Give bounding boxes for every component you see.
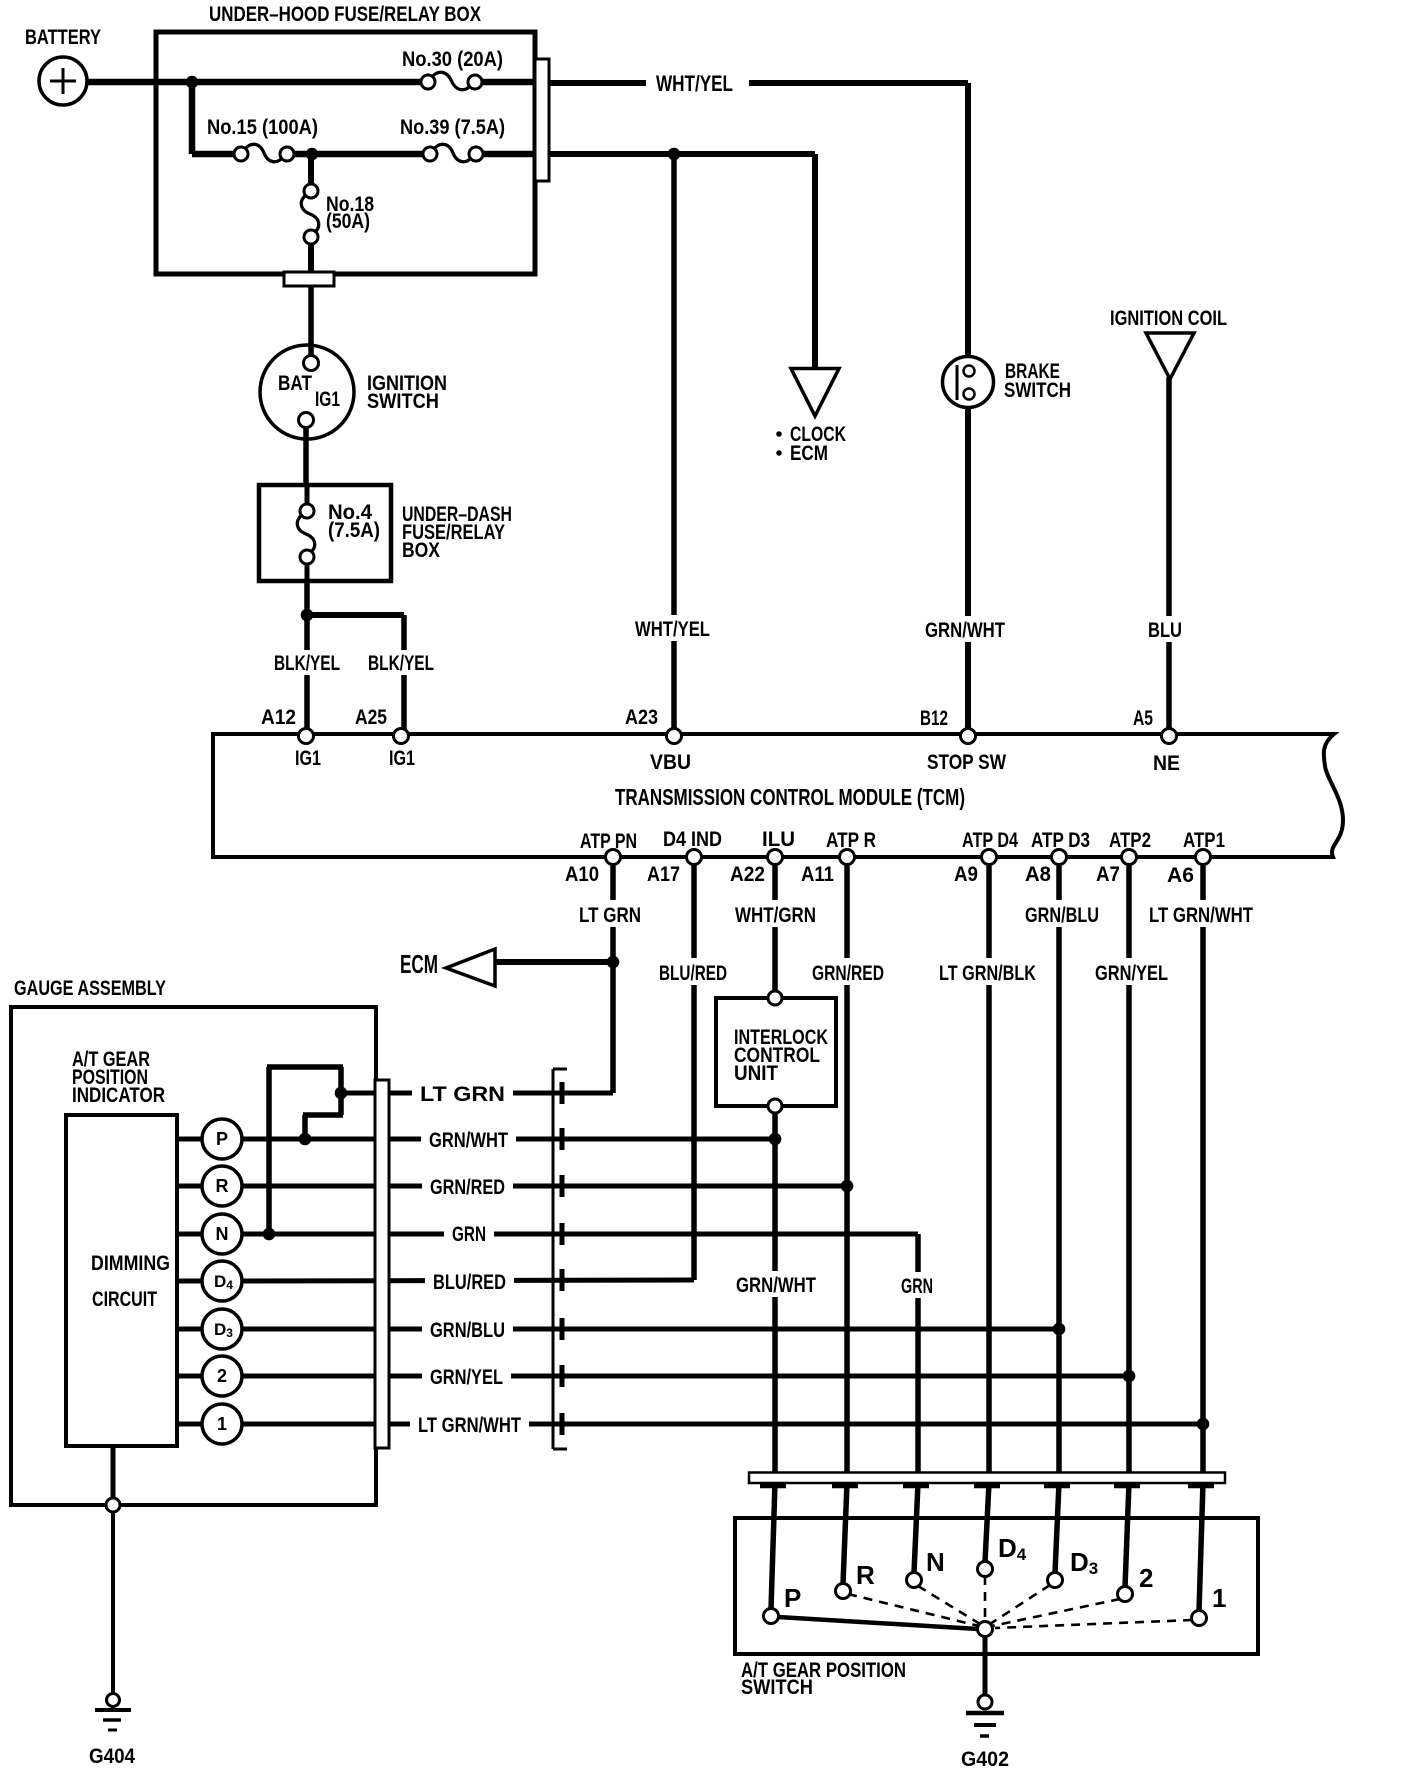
svg-text:GRN/BLU: GRN/BLU [430,1319,505,1342]
svg-text:A25: A25 [355,706,387,729]
svg-text:G402: G402 [961,1748,1009,1771]
svg-text:N: N [216,1224,229,1244]
svg-text:GRN: GRN [452,1223,486,1246]
svg-text:A22: A22 [730,863,765,886]
svg-text:GRN/RED: GRN/RED [430,1176,505,1199]
svg-text:ATP D4: ATP D4 [962,829,1018,852]
svg-text:DIMMING: DIMMING [91,1252,170,1275]
svg-text:N: N [926,1547,945,1577]
svg-text:SWITCH: SWITCH [1004,379,1071,402]
svg-text:TRANSMISSION CONTROL MODULE (T: TRANSMISSION CONTROL MODULE (TCM) [615,784,965,810]
svg-text:ATP PN: ATP PN [580,830,637,853]
svg-text:(50A): (50A) [326,210,370,233]
svg-text:STOP SW: STOP SW [927,751,1006,774]
svg-text:A6: A6 [1167,864,1194,887]
svg-text:A17: A17 [647,863,680,886]
svg-text:1: 1 [217,1414,227,1434]
svg-text:(7.5A): (7.5A) [328,519,380,542]
svg-text:LT GRN/WHT: LT GRN/WHT [418,1414,521,1437]
svg-text:ATP2: ATP2 [1109,829,1151,852]
svg-text:BLU/RED: BLU/RED [659,962,727,985]
svg-text:GRN/WHT: GRN/WHT [925,619,1005,642]
svg-text:A10: A10 [565,863,599,886]
svg-text:CIRCUIT: CIRCUIT [92,1288,157,1311]
svg-text:2: 2 [1139,1563,1153,1593]
svg-text:IG1: IG1 [295,747,321,770]
svg-text:ILU: ILU [762,828,795,851]
svg-text:WHT/YEL: WHT/YEL [635,618,710,641]
svg-text:R: R [216,1176,229,1196]
svg-text:IG1: IG1 [315,388,340,411]
svg-text:A8: A8 [1025,863,1051,886]
svg-text:GRN/WHT: GRN/WHT [736,1274,816,1297]
svg-text:No.15 (100A): No.15 (100A) [207,116,318,139]
svg-text:A5: A5 [1133,707,1153,730]
svg-text:P: P [216,1129,228,1149]
svg-text:A12: A12 [261,706,296,729]
svg-text:BLU/RED: BLU/RED [433,1271,506,1294]
svg-text:LT GRN: LT GRN [420,1083,505,1106]
svg-text:BAT: BAT [278,372,312,395]
svg-text:ATP R: ATP R [826,829,876,852]
svg-text:GRN/WHT: GRN/WHT [429,1129,508,1152]
svg-text:GRN/RED: GRN/RED [812,962,884,985]
svg-text:VBU: VBU [650,751,691,774]
svg-text:ECM: ECM [400,949,438,979]
svg-text:1: 1 [1212,1583,1226,1613]
svg-text:INDICATOR: INDICATOR [72,1084,165,1107]
svg-text:A23: A23 [625,706,658,729]
svg-text:BATTERY: BATTERY [25,26,101,49]
svg-text:LT GRN/WHT: LT GRN/WHT [1149,904,1253,927]
svg-text:R: R [856,1560,875,1590]
svg-text:IG1: IG1 [389,747,415,770]
svg-text:GRN/BLU: GRN/BLU [1025,904,1099,927]
svg-text:LT GRN: LT GRN [579,904,641,927]
svg-text:BLU: BLU [1148,619,1182,642]
svg-text:SWITCH: SWITCH [367,390,439,413]
svg-text:BLK/YEL: BLK/YEL [274,652,340,675]
svg-text:2: 2 [217,1366,227,1386]
svg-text:ECM: ECM [790,442,828,465]
svg-text:BOX: BOX [402,539,440,562]
svg-text:IGNITION COIL: IGNITION COIL [1110,307,1227,330]
svg-text:No.39 (7.5A): No.39 (7.5A) [400,116,505,139]
svg-text:GRN/YEL: GRN/YEL [430,1366,503,1389]
svg-text:ATP1: ATP1 [1183,829,1225,852]
svg-text:B12: B12 [920,707,948,730]
svg-text:NE: NE [1153,752,1180,775]
svg-text:D4 IND: D4 IND [663,828,722,851]
svg-text:No.30 (20A): No.30 (20A) [402,48,503,71]
svg-text:LT GRN/BLK: LT GRN/BLK [939,962,1036,985]
svg-text:UNDER–HOOD FUSE/RELAY BOX: UNDER–HOOD FUSE/RELAY BOX [209,3,481,26]
svg-text:BLK/YEL: BLK/YEL [368,652,434,675]
svg-text:GRN: GRN [901,1275,933,1298]
svg-text:A9: A9 [954,863,978,886]
svg-text:GRN/YEL: GRN/YEL [1095,962,1168,985]
svg-text:WHT/YEL: WHT/YEL [656,71,733,96]
svg-text:ATP D3: ATP D3 [1031,829,1090,852]
svg-text:WHT/GRN: WHT/GRN [735,904,816,927]
svg-text:A11: A11 [801,863,834,886]
svg-text:P: P [784,1583,801,1613]
svg-text:SWITCH: SWITCH [741,1676,813,1699]
svg-text:G404: G404 [89,1745,135,1768]
svg-text:UNIT: UNIT [734,1062,778,1085]
svg-text:GAUGE ASSEMBLY: GAUGE ASSEMBLY [14,977,166,1000]
svg-text:A7: A7 [1096,863,1120,886]
